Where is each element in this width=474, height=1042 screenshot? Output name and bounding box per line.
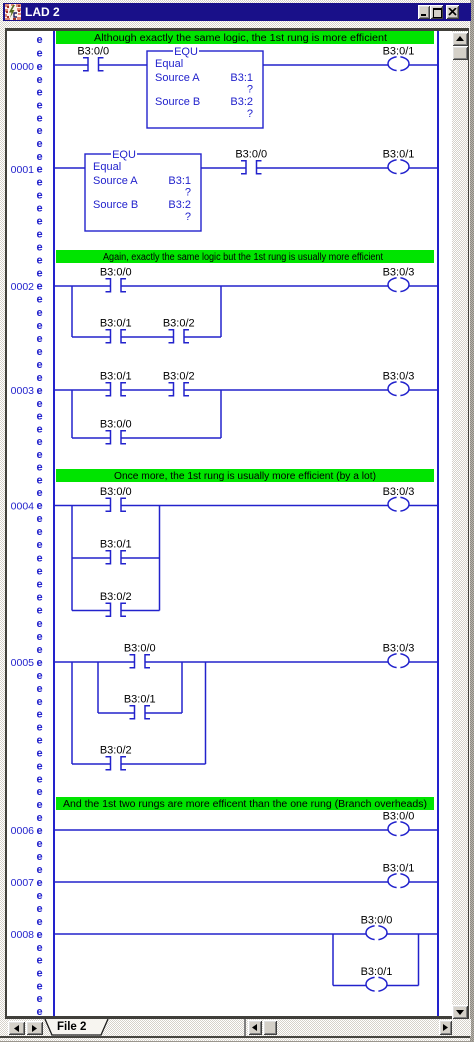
right power rail: [437, 31, 439, 1016]
wire: [121, 505, 388, 507]
outer branch wire: [121, 763, 206, 765]
svg-text:e: e: [36, 565, 42, 577]
svg-text:e: e: [36, 722, 42, 734]
svg-text:B3:0/2: B3:0/2: [163, 371, 195, 383]
svg-text:e: e: [36, 748, 42, 760]
h-scroll left button: [248, 1020, 262, 1035]
svg-text:And the 1st two rungs are more: And the 1st two rungs are more efficent …: [63, 799, 427, 810]
contact B3:0/2: [106, 603, 127, 616]
svg-text:e: e: [36, 268, 42, 280]
svg-text:e: e: [36, 579, 42, 591]
svg-text:e: e: [36, 125, 42, 137]
branch wire: [121, 557, 160, 559]
branch left vertical rung 0003: [71, 390, 73, 438]
svg-text:e: e: [36, 786, 42, 798]
svg-text:Source B: Source B: [93, 199, 138, 211]
outer branch right vertical rung 0005: [205, 662, 207, 764]
coil B3:0/3: [388, 652, 409, 670]
contact B3:0/0: [83, 58, 104, 71]
svg-text:B3:1: B3:1: [168, 175, 191, 187]
svg-text:e: e: [36, 487, 42, 499]
svg-text:0005: 0005: [11, 657, 35, 669]
EQU block rung 0001: [85, 149, 201, 231]
svg-text:B3:0/0: B3:0/0: [383, 811, 415, 823]
branch wire: [387, 985, 419, 987]
rung comment bar: [56, 250, 434, 263]
coil B3:0/3: [388, 380, 409, 398]
svg-text:?: ?: [185, 187, 191, 199]
wire: [409, 389, 438, 391]
wire: [145, 661, 388, 663]
svg-text:e: e: [36, 411, 42, 423]
svg-text:e: e: [36, 812, 42, 824]
contact B3:0/1: [130, 706, 151, 719]
svg-text:e: e: [36, 436, 42, 448]
svg-text:e: e: [36, 864, 42, 876]
svg-text:B3:0/3: B3:0/3: [383, 267, 415, 279]
svg-text:B3:0/0: B3:0/0: [77, 46, 109, 58]
branch left vertical rung 0008: [332, 934, 334, 986]
svg-text:B3:0/2: B3:0/2: [100, 745, 132, 757]
wire: [409, 829, 438, 831]
svg-text:e: e: [36, 670, 42, 682]
svg-text:e: e: [36, 980, 42, 992]
svg-text:e: e: [36, 138, 42, 150]
v-scroll down button: [452, 1005, 468, 1019]
branch wire: [72, 557, 111, 559]
svg-text:B3:0/3: B3:0/3: [383, 643, 415, 655]
wire: [387, 933, 438, 935]
svg-text:e: e: [36, 423, 42, 435]
svg-text:e: e: [36, 255, 42, 267]
wire: [99, 64, 148, 66]
svg-text:e: e: [36, 346, 42, 358]
wire: [263, 64, 388, 66]
wire: [55, 285, 111, 287]
svg-text:0007: 0007: [11, 877, 35, 889]
svg-text:e: e: [36, 993, 42, 1005]
svg-text:B3:0/0: B3:0/0: [235, 149, 267, 161]
svg-text:e: e: [36, 929, 42, 941]
branch right vertical rung 0004: [159, 506, 161, 611]
wire: [55, 881, 388, 883]
svg-text:e: e: [36, 838, 42, 850]
wire: [121, 285, 388, 287]
svg-text:Equal: Equal: [155, 58, 183, 70]
svg-text:e: e: [36, 890, 42, 902]
svg-text:B3:0/1: B3:0/1: [100, 318, 132, 330]
branch left vertical rung 0004: [71, 506, 73, 611]
svg-text:e: e: [36, 773, 42, 785]
branch wire: [72, 336, 111, 338]
contact B3:0/1: [106, 330, 127, 343]
svg-text:e: e: [36, 294, 42, 306]
bottom strip: [3, 1019, 471, 1036]
wire: [409, 285, 438, 287]
svg-text:B3:1: B3:1: [230, 72, 253, 84]
svg-text:e: e: [36, 631, 42, 643]
coil B3:0/1: [388, 55, 409, 73]
svg-text:e: e: [36, 462, 42, 474]
branch right vertical rung 0002: [220, 286, 222, 337]
svg-text:e: e: [36, 683, 42, 695]
svg-text:e: e: [36, 709, 42, 721]
wire: [55, 505, 111, 507]
svg-text:e: e: [36, 851, 42, 863]
svg-text:e: e: [36, 735, 42, 747]
svg-text:e: e: [36, 203, 42, 215]
contact B3:0/0: [241, 161, 262, 174]
contact B3:0/0: [130, 655, 151, 668]
contact B3:0/2: [169, 383, 190, 396]
wire: [409, 167, 438, 169]
svg-text:B3:2: B3:2: [168, 199, 191, 211]
left power rail: [53, 31, 55, 1016]
h-scrollbar divider: [244, 1019, 246, 1036]
svg-text:B3:0/1: B3:0/1: [383, 149, 415, 161]
inner branch left vertical rung 0005: [97, 662, 99, 713]
wire: [55, 829, 388, 831]
wire: [201, 167, 246, 169]
wire: [409, 505, 438, 507]
contact B3:0/0: [106, 279, 127, 292]
svg-text:e: e: [36, 526, 42, 538]
wire: [55, 661, 135, 663]
tab-right button: [26, 1021, 43, 1035]
svg-text:e: e: [36, 474, 42, 486]
wire: [184, 389, 388, 391]
svg-text:B3:0/0: B3:0/0: [124, 643, 156, 655]
wire: [121, 389, 174, 391]
inner branch wire: [98, 712, 135, 714]
svg-text:e: e: [36, 500, 42, 512]
wire: [409, 661, 438, 663]
svg-text:Again, exactly the same logic: Again, exactly the same logic but the 1s…: [103, 252, 383, 263]
svg-text:Equal: Equal: [93, 161, 121, 173]
maximize button: [430, 5, 443, 19]
wire: [55, 389, 111, 391]
svg-text:e: e: [36, 242, 42, 254]
svg-text:B3:0/0: B3:0/0: [361, 915, 393, 927]
v-scroll thumb: [452, 46, 468, 60]
coil B3:0/3: [388, 495, 409, 513]
title icon: [5, 4, 21, 20]
svg-text:e: e: [36, 100, 42, 112]
svg-text:Once more, the 1st rung is usu: Once more, the 1st rung is usually more …: [114, 471, 376, 482]
svg-text:EQU: EQU: [112, 149, 136, 161]
rung comment bar: [56, 469, 434, 482]
svg-text:e: e: [36, 333, 42, 345]
svg-text:e: e: [36, 903, 42, 915]
svg-text:e: e: [36, 359, 42, 371]
svg-text:?: ?: [185, 211, 191, 223]
title bar: [3, 3, 471, 21]
svg-text:0000: 0000: [11, 61, 35, 73]
close button: [446, 5, 459, 19]
svg-text:?: ?: [247, 108, 253, 120]
svg-text:e: e: [36, 513, 42, 525]
contact B3:0/2: [106, 757, 127, 770]
branch wire: [121, 437, 221, 439]
svg-text:e: e: [36, 955, 42, 967]
svg-text:B3:0/1: B3:0/1: [124, 694, 156, 706]
svg-text:B3:0/2: B3:0/2: [100, 591, 132, 603]
svg-text:e: e: [36, 605, 42, 617]
svg-text:e: e: [36, 307, 42, 319]
svg-text:e: e: [36, 449, 42, 461]
contact B3:0/0: [106, 498, 127, 511]
coil B3:0/1: [388, 158, 409, 176]
svg-text:Source A: Source A: [155, 72, 200, 84]
tab-left button: [8, 1021, 25, 1035]
svg-text:e: e: [36, 916, 42, 928]
wire: [409, 64, 438, 66]
svg-text:e: e: [36, 164, 42, 176]
coil B3:0/0: [366, 924, 387, 942]
outer branch left vertical rung 0005: [71, 662, 73, 764]
branch wire: [333, 985, 366, 987]
wire: [55, 167, 85, 169]
wire: [257, 167, 389, 169]
wire: [55, 64, 88, 66]
branch wire: [184, 336, 221, 338]
svg-text:e: e: [36, 1006, 42, 1018]
coil B3:0/3: [388, 276, 409, 294]
edit markers column (e): [36, 34, 42, 1018]
svg-text:e: e: [36, 190, 42, 202]
svg-text:B3:2: B3:2: [230, 96, 253, 108]
svg-text:e: e: [36, 592, 42, 604]
svg-text:e: e: [36, 552, 42, 564]
branch wire: [121, 610, 160, 612]
svg-text:e: e: [36, 74, 42, 86]
rung comment bar: [56, 797, 434, 810]
branch right vertical rung 0003: [220, 390, 222, 438]
svg-text:e: e: [36, 34, 42, 46]
svg-text:0004: 0004: [11, 501, 35, 513]
wire: [55, 933, 366, 935]
svg-text:?: ?: [247, 84, 253, 96]
rung comment bar: [56, 31, 434, 44]
svg-text:B3:0/1: B3:0/1: [100, 539, 132, 551]
svg-text:e: e: [36, 61, 42, 73]
h-scroll right button: [439, 1020, 452, 1035]
svg-text:e: e: [36, 825, 42, 837]
File 2 tab: [44, 1019, 112, 1036]
svg-text:e: e: [36, 87, 42, 99]
svg-text:Source A: Source A: [93, 175, 138, 187]
svg-text:Although exactly the same logi: Although exactly the same logic, the 1st…: [94, 33, 387, 44]
svg-text:Source B: Source B: [155, 96, 200, 108]
coil B3:0/0: [388, 820, 409, 838]
EQU block rung 0000: [147, 46, 263, 128]
contact B3:0/1: [106, 383, 127, 396]
svg-text:e: e: [36, 942, 42, 954]
svg-text:B3:0/1: B3:0/1: [100, 371, 132, 383]
svg-text:B3:0/1: B3:0/1: [383, 46, 415, 58]
inner branch wire: [145, 712, 182, 714]
contact B3:0/1: [106, 551, 127, 564]
coil B3:0/1: [388, 872, 409, 890]
svg-text:0008: 0008: [11, 929, 35, 941]
outer branch wire: [72, 763, 111, 765]
svg-text:B3:0/0: B3:0/0: [100, 486, 132, 498]
svg-text:e: e: [36, 760, 42, 772]
svg-text:e: e: [36, 177, 42, 189]
branch right vertical rung 0008: [418, 934, 420, 986]
minimize button: [418, 5, 430, 19]
svg-text:e: e: [36, 657, 42, 669]
branch wire: [72, 610, 111, 612]
svg-text:B3:0/0: B3:0/0: [100, 267, 132, 279]
coil B3:0/1: [366, 975, 387, 993]
svg-text:B3:0/2: B3:0/2: [163, 318, 195, 330]
svg-text:e: e: [36, 320, 42, 332]
svg-text:e: e: [36, 385, 42, 397]
branch wire: [72, 437, 111, 439]
svg-text:e: e: [36, 216, 42, 228]
svg-text:0006: 0006: [11, 825, 35, 837]
contact B3:0/0: [106, 431, 127, 444]
svg-text:e: e: [36, 968, 42, 980]
svg-text:e: e: [36, 281, 42, 293]
svg-text:B3:0/0: B3:0/0: [100, 419, 132, 431]
v-scroll up button: [452, 32, 468, 46]
inner branch right vertical rung 0005: [181, 662, 183, 713]
svg-text:e: e: [36, 644, 42, 656]
svg-text:0001: 0001: [11, 164, 35, 176]
contact B3:0/2: [169, 330, 190, 343]
svg-text:EQU: EQU: [174, 46, 198, 58]
svg-text:B3:0/1: B3:0/1: [361, 966, 393, 978]
svg-text:e: e: [36, 696, 42, 708]
svg-text:B3:0/1: B3:0/1: [383, 863, 415, 875]
svg-text:B3:0/3: B3:0/3: [383, 371, 415, 383]
h-scroll thumb: [263, 1020, 277, 1035]
branch wire: [121, 336, 174, 338]
svg-text:e: e: [36, 112, 42, 124]
svg-text:e: e: [36, 48, 42, 60]
svg-text:e: e: [36, 151, 42, 163]
title text: [25, 5, 60, 19]
wire: [409, 881, 438, 883]
svg-text:e: e: [36, 539, 42, 551]
svg-text:e: e: [36, 229, 42, 241]
svg-text:0002: 0002: [11, 281, 35, 293]
svg-text:0003: 0003: [11, 385, 35, 397]
svg-text:e: e: [36, 398, 42, 410]
svg-text:B3:0/3: B3:0/3: [383, 486, 415, 498]
svg-text:e: e: [36, 799, 42, 811]
svg-text:e: e: [36, 618, 42, 630]
svg-text:e: e: [36, 372, 42, 384]
branch left vertical rung 0002: [71, 286, 73, 337]
svg-text:e: e: [36, 877, 42, 889]
vertical scrollbar: [452, 31, 468, 1019]
